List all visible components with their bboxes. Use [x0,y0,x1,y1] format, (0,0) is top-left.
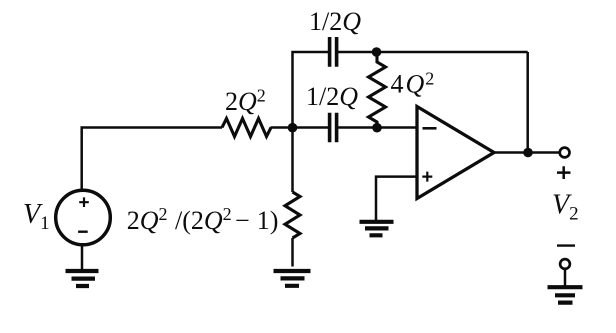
wire [291,128,294,193]
ground (op-amp + input) [360,222,394,236]
wire [82,128,222,191]
ground (V2 terminal) [548,287,583,302]
svg-text:1/2Q: 1/2Q [309,7,361,36]
op-amp inverting pin label [423,127,437,130]
wire [271,126,293,129]
wire [338,126,417,129]
svg-text:1/2Q: 1/2Q [306,82,358,111]
svg-text:V2: V2 [552,190,579,225]
wire [338,51,528,54]
wire [526,52,529,153]
terminal V2+ [560,148,570,158]
resistor 2Q2/(2Q2-1) [285,192,300,238]
wire [81,245,84,269]
wire [293,52,329,128]
wire [293,126,329,129]
svg-text:2Q2: 2Q2 [225,85,266,116]
terminal V2− [560,259,570,269]
wire [291,238,294,267]
resistor 2Q2 [222,119,271,137]
node B [372,47,382,57]
node C [372,123,382,133]
op-amp U1 [417,107,494,199]
V1 − polarity mark [78,230,88,232]
svg-text:2Q2/(2Q2−1): 2Q2/(2Q2−1) [127,204,279,235]
node A [288,123,298,133]
ground (shunt resistor) [274,271,311,286]
svg-text:V1: V1 [23,199,50,234]
wire [564,269,567,286]
capacitor C2 1/2Q [330,113,337,142]
svg-text:4Q2: 4Q2 [391,69,435,99]
resistor 4Q2 [369,52,386,128]
node D [523,148,533,158]
ground (V1) [66,271,99,286]
capacitor C1 1/2Q [330,37,337,67]
label + (output polarity) [557,166,571,179]
V1 + polarity mark [79,197,89,207]
wire [494,151,560,154]
voltage source V1 [56,190,111,245]
op-amp non-inverting pin label [422,172,432,182]
label − (output polarity) [557,244,575,246]
wire [376,177,417,220]
